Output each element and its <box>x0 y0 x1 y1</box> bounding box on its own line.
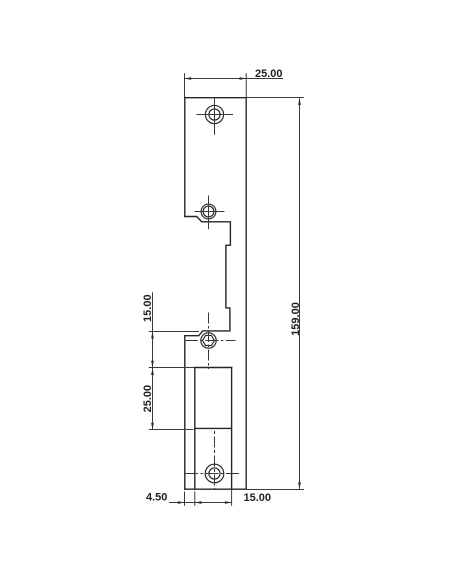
svg-text:4.50: 4.50 <box>146 492 167 504</box>
svg-text:25.00: 25.00 <box>255 68 283 80</box>
svg-text:159.00: 159.00 <box>290 302 302 336</box>
svg-text:25.00: 25.00 <box>142 385 154 413</box>
svg-text:15.00: 15.00 <box>244 492 272 504</box>
svg-text:15.00: 15.00 <box>142 294 154 322</box>
